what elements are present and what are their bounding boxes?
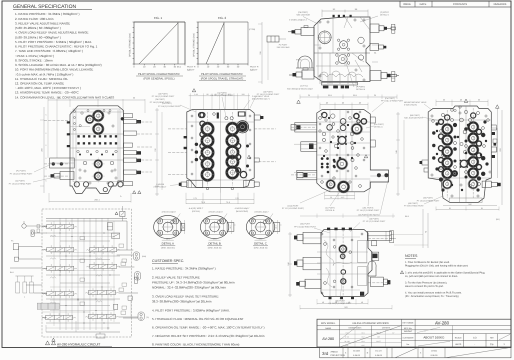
V5 left edge ports (422, 160, 428, 165)
svg-text:KEY NAME: KEY NAME (403, 322, 414, 325)
svg-text:PT 1/4 (2) D-RING PORT: PT 1/4 (2) D-RING PORT (158, 105, 181, 108)
svg-text:14. CONTAMINATION LEVEL : BE C: 14. CONTAMINATION LEVEL : BE CONTROLLED … (15, 95, 114, 99)
circuit pilot boxes (80, 237, 85, 240)
directional valve symbol (47, 292, 74, 296)
svg-text:PT 1/4 (2) D-RING PORT: PT 1/4 (2) D-RING PORT (357, 209, 380, 212)
V3 top small ports (225, 117, 228, 120)
V2 bottom dimension (49, 201, 131, 203)
svg-text:74: 74 (425, 231, 428, 233)
svg-text:Plugging the (Ob) (A-10d), and: Plugging the (Ob) (A-10d), and having wI… (405, 265, 469, 268)
svg-text:49: 49 (361, 301, 363, 304)
svg-text:REMARKS: REMARKS (494, 3, 507, 6)
V3 interior extra bolt holes (191, 115, 193, 117)
V5 interior confetti circles (441, 113, 444, 116)
V2 left small tabs (67, 121, 70, 123)
svg-text:35: 35 (308, 94, 310, 97)
circuit actuator symbol right 1 (133, 252, 139, 260)
svg-text:PT 3/8 D-RING PORT: PT 3/8 D-RING PORT (404, 205, 424, 208)
svg-text:3-M20 (TAGS): 3-M20 (TAGS) (404, 104, 417, 107)
svg-text:34.5: 34.5 (275, 225, 278, 228)
svg-text:10. PORT Rbt (R6SM)/Rbt (SMb): 10. PORT Rbt (R6SM)/Rbt (SMb) LOCK VALVE… (15, 68, 93, 72)
V2 dimension extension lines above (47, 96, 49, 158)
svg-text:NOTES: NOTES (405, 254, 418, 258)
V6 right arm centerlines (368, 238, 396, 240)
svg-text:PT 1/2 (LO-RING PORT): PT 1/2 (LO-RING PORT) (282, 207, 304, 210)
svg-text:(2b PORT): (2b PORT) (263, 91, 273, 94)
svg-text:DATE: DATE (420, 3, 427, 6)
svg-text:(MOUNTING dp17 ): (MOUNTING dp17 ) (252, 98, 270, 101)
valve front view V3 body outline (187, 110, 254, 188)
V2 ring circle crosshairs (92, 116, 105, 118)
svg-text:1.43: 1.43 (194, 93, 198, 96)
svg-text:9. SPOOL LEAKAGE : 80 cc/min M: 9. SPOOL LEAKAGE : 80 cc/min MAX. at 14.… (15, 63, 102, 67)
svg-text:ABOUT 160KG: ABOUT 160KG (423, 336, 445, 340)
V4 left relief valve cylinders (295, 123, 317, 133)
circuit actuator symbol right 3 (138, 312, 144, 320)
V4 warning triangle (297, 100, 301, 103)
svg-text:232: 232 (154, 148, 157, 151)
svg-text:PILOT P.: PILOT P. (250, 66, 259, 69)
V3 dimension chain below (186, 199, 254, 201)
V5 bottom dim lines (436, 209, 499, 211)
valve left side view V2 body outline (70, 106, 124, 194)
svg-text:(PT3/8): (PT3/8) (249, 28, 256, 31)
V1 left pilot fitting lower (302, 70, 314, 79)
svg-text:PRESSURE UP : 34.3~34.8MPa(350: PRESSURE UP : 34.3~34.8MPa(350~355Kgf/cm… (152, 281, 235, 285)
svg-text:NORMAL : 32.4~32.8MPa(3: NORMAL : 32.4~32.8MPa(330~335Kgf/cm² )at… (152, 286, 226, 290)
circuit actuator symbol right 2 (134, 272, 140, 280)
svg-text:34.5: 34.5 (229, 225, 232, 228)
svg-text:(Bkt): (Bkt) (142, 255, 146, 258)
svg-text:(FOR SPOOL TRAVEL STRAIGHT): (FOR SPOOL TRAVEL STRAIGHT) (201, 78, 244, 81)
svg-text:3rd: 3rd (322, 351, 329, 356)
V1 vertical dim line far left (261, 22, 263, 84)
svg-text:5. PILOT PORT PRESSURE : 6.9MP: 5. PILOT PORT PRESSURE : 6.9MPa ( 50kgf/… (15, 40, 92, 44)
directional valve symbol (90, 248, 117, 252)
V3 bottom right foot fitting (244, 181, 255, 188)
notes warning marker (400, 271, 403, 274)
title block diagonal slashes (418, 341, 450, 346)
svg-text:4-M10X1.5dp17: 4-M10X1.5dp17 (235, 207, 251, 210)
V4 V5 gap dimension verticals (397, 112, 399, 196)
svg-text:5: 5 (46, 168, 47, 171)
svg-text:7. TANK LINE PRESSURE : 0.98MP: 7. TANK LINE PRESSURE : 0.98MPa ( 10kgf/… (15, 49, 83, 53)
V3 bottom center hole (206, 187, 209, 190)
V2 block bolt rows (77, 135, 79, 137)
svg-text:(2a PORT): (2a PORT) (15, 180, 25, 183)
valve rear view V5 body outline (428, 106, 491, 203)
circuit accumulator cylinders left bottom (16, 282, 20, 293)
V2 right side port bosses (124, 114, 133, 118)
svg-text:6. OPERATION OIL TEMP. RANGE: 6. OPERATION OIL TEMP. RANGE : -20~+90°C… (152, 326, 265, 330)
svg-text:43: 43 (221, 93, 223, 96)
svg-text:MCV MODEL: MCV MODEL (321, 322, 336, 325)
svg-text:50.4: 50.4 (166, 237, 170, 240)
svg-text:WEIGHT: WEIGHT (404, 330, 413, 333)
svg-text:(3A PORT): (3A PORT) (423, 197, 433, 200)
svg-text:249: 249 (395, 150, 398, 153)
V3 left edge tabs (184, 136, 187, 138)
V1 left pilot fitting upper (301, 28, 314, 36)
svg-text:4-M10X1.5dp17: 4-M10X1.5dp17 (162, 211, 177, 214)
svg-text:5: 5 (46, 132, 47, 135)
V6 right lower fitting (370, 277, 383, 286)
V1 dimension lines above (322, 10, 368, 12)
svg-text:ECO/M: ECO/M (353, 350, 360, 353)
V1 dimension chain below (300, 96, 397, 98)
V4 left cylinders inner lines (294, 124, 317, 126)
svg-text:PILOT-SPOOL CHARACTERISTIC: PILOT-SPOOL CHARACTERISTIC (138, 73, 180, 76)
circuit filter component (107, 223, 112, 230)
circuit travel straight valve block (37, 303, 59, 309)
svg-text:o: o (24, 297, 25, 299)
circuit extra connector lines (42, 226, 47, 228)
svg-text:263: 263 (344, 306, 347, 309)
V4 center ring port (336, 158, 348, 170)
title block vertical lines (339, 319, 341, 347)
V1 main bore circle (319, 31, 332, 44)
circuit check valve component (112, 233, 120, 238)
revision table (400, 1, 511, 7)
circuit extra junction dots 2 (71, 236, 72, 237)
svg-text:5: 5 (46, 114, 47, 117)
V6 center ported circles (338, 245, 347, 254)
V1 port circle with bolt holes lower detail B (338, 55, 347, 64)
svg-text:90: 90 (207, 93, 209, 96)
svg-text:3. RELIEF VALVE ADJUSTABLE RAN: 3. RELIEF VALVE ADJUSTABLE RANGE (15, 21, 70, 25)
V6 dimension chain between V4 (300, 215, 395, 217)
svg-text:A-A(10) 160P-T: A-A(10) 160P-T (189, 207, 204, 210)
svg-text:(SAE J518 4t): (SAE J518 4t) (208, 247, 222, 250)
V1 external connector block (267, 36, 279, 42)
V1 small gauge circle right (358, 37, 364, 43)
svg-text:49: 49 (335, 301, 337, 304)
V5 right cluster ports (467, 121, 479, 133)
svg-text:8. SPOOL STROKE : 10mm: 8. SPOOL STROKE : 10mm (15, 58, 53, 62)
circuit bottom elements (52, 338, 55, 341)
svg-text:8.06.09: 8.06.09 (353, 354, 361, 357)
V1 left bail-shaped fitting (298, 56, 312, 68)
circuit connecting lines left (34, 232, 47, 234)
svg-text:(DETAIL): (DETAIL) (192, 210, 201, 213)
svg-text:5. HYDRAULIC FLUID : MINERAL O: 5. HYDRAULIC FLUID : MINERAL OIL ISO VG … (152, 317, 244, 321)
svg-text:8.06.09: 8.06.09 (431, 354, 439, 357)
svg-text:PILOT-SPOOL CHARACTERISTIC: PILOT-SPOOL CHARACTERISTIC (201, 73, 243, 76)
svg-text:260.1: 260.1 (94, 199, 100, 202)
V6 right upper arm block (367, 231, 391, 240)
svg-text:PF 1/2(1)O-RING PORT: PF 1/2(1)O-RING PORT (294, 225, 316, 228)
svg-text:DETAIL B: DETAIL B (356, 88, 366, 91)
V5 right mid ledge (491, 128, 497, 152)
svg-text:AV-280 HYDRAULIC CIRCUIT: AV-280 HYDRAULIC CIRCUIT (57, 342, 100, 346)
V5 left cluster ports (441, 123, 453, 135)
detail flange A (154, 215, 182, 238)
V1 bottom edge mounting tabs (323, 86, 329, 89)
V1 top edge mounting tabs (333, 15, 335, 17)
svg-text:SPOOL STROKE (mm): SPOOL STROKE (mm) (129, 33, 132, 57)
V3 left column main ports A1-A5 (200, 122, 214, 136)
svg-text:6. PILOT PRESSURE CHARACTERIS: 6. PILOT PRESSURE CHARACTERISTIC : REFER… (15, 45, 98, 49)
title block horizontal lines (317, 325, 511, 327)
svg-text:CONTENTS: CONTENTS (453, 3, 468, 6)
V2 V3 gap vertical dimension line (156, 108, 158, 196)
V1 right cartridge valve lower (370, 71, 381, 81)
svg-text:4. OVER LOAD RELIEF VALVE ADJU: 4. OVER LOAD RELIEF VALVE ADJUSTABLE RAN… (15, 31, 89, 35)
V3 internal division lines (220, 110, 222, 193)
svg-text:UNLESS OTHERWISE SPECIFIED: UNLESS OTHERWISE SPECIFIED (352, 322, 389, 325)
svg-text:PT 1/4 (2) D-RING PORT: PT 1/4 (2) D-RING PORT (9, 182, 32, 185)
V2 centerlines extending (44, 119, 70, 121)
svg-text:91: 91 (449, 207, 451, 210)
V6 top tabs (327, 228, 330, 231)
V1 lower spool bonnet arcs (320, 71, 356, 84)
svg-text:AV-280: AV-280 (322, 337, 334, 341)
svg-text:DETAIL A: DETAIL A (162, 242, 174, 246)
V5 right edge black marks (492, 132, 495, 135)
svg-text:34.5: 34.5 (182, 225, 185, 228)
svg-text:(2) P.T,O: (2) P.T,O (300, 85, 308, 88)
directional valve symbol (47, 248, 74, 252)
svg-text:OTHERS: OTHERS (382, 327, 391, 330)
svg-text:DETAIL C: DETAIL C (380, 14, 390, 17)
circuit extra horizontal connectors (50, 236, 115, 238)
detail flange B (200, 215, 228, 238)
V4 bottom dark ports (326, 179, 336, 189)
circuit right small boxes (134, 277, 137, 283)
V5 right edge small ports (491, 125, 496, 130)
V5 dimension lines above (436, 101, 488, 103)
svg-text:SAE J518 6#8 PORT: SAE J518 6#8 PORT (404, 117, 424, 120)
V6 dimension chain below (317, 303, 368, 305)
svg-text:1. RATED PRESSURE : 34.3MPa (3: 1. RATED PRESSURE : 34.3MPa (350kgf/cm² … (152, 267, 216, 271)
V2 center spool circles (94, 159, 103, 168)
svg-text:PT 1/4 (2) D-RING PORT: PT 1/4 (2) D-RING PORT (10, 172, 33, 175)
svg-text:50: 50 (330, 196, 332, 199)
circuit small spring-check symbols (50, 235, 56, 237)
V6 interior casting squiggles (324, 240, 334, 266)
directional valve symbol (47, 266, 74, 270)
svg-text:7. NEGATIVE RELIEF SET PRESSUR: 7. NEGATIVE RELIEF SET PRESSURE : 2.94~3… (152, 334, 265, 338)
svg-text:PT 1/4 (2) D-RING PORT: PT 1/4 (2) D-RING PORT (417, 199, 440, 202)
svg-text:4-M10X1.5dp17: 4-M10X1.5dp17 (254, 211, 269, 214)
valve bottom view V6 body outline (321, 230, 372, 297)
V4 top area circles (322, 112, 327, 117)
V6 interior extra details (321, 233, 323, 235)
svg-text:DIMENSIONS: DIMENSIONS (349, 327, 362, 330)
svg-text:PT 1/4 (2) D-RING PORT: PT 1/4 (2) D-RING PORT (257, 93, 280, 96)
V6 internal lines (317, 251, 368, 253)
svg-text:3. OVER LOAD RELIEF VALVE SET: 3. OVER LOAD RELIEF VALVE SET PRESSURE: (152, 295, 219, 299)
svg-text:: 0.5 cc/min MAX. at (4.7MPa (: : 0.5 cc/min MAX. at (4.7MPa ( 150kgf/cm… (15, 72, 73, 76)
svg-text:158: 158 (287, 262, 290, 265)
valve right side view V4 body outline (317, 110, 389, 192)
V3 centerlines extending (168, 128, 187, 130)
svg-text:50.4: 50.4 (213, 237, 217, 240)
svg-text:SAE J518 6#8: SAE J518 6#8 (277, 46, 291, 49)
circuit junction dots (59, 232, 60, 233)
svg-text:91: 91 (481, 207, 483, 210)
svg-text:50.4: 50.4 (259, 237, 263, 240)
svg-text:CHAN: CHAN (431, 350, 437, 353)
V2 left dimension vertical (43, 107, 45, 193)
svg-text:90.5: 90.5 (228, 93, 232, 96)
V2 internal lines (70, 133, 124, 135)
svg-text:8.06.09: 8.06.09 (375, 354, 383, 357)
V4 right upper boss (370, 117, 375, 123)
svg-text:(2b PORT): (2b PORT) (369, 217, 379, 220)
V5 right dim vertical (497, 108, 499, 178)
V1 port circle with bolt holes upper (340, 41, 348, 49)
title block bottom extension row (320, 347, 511, 357)
V3 right side gauge ports (254, 115, 260, 120)
svg-text:206: 206 (259, 51, 262, 54)
circuit right column extra small boxes (119, 244, 124, 247)
V6 interior side panels (358, 241, 367, 263)
detail flange C (246, 215, 274, 238)
valve top view V1 body outline (314, 17, 370, 82)
V4 right lower arm ports (377, 173, 381, 177)
svg-text:96.5: 96.5 (328, 94, 332, 97)
svg-text:(2b PORT): (2b PORT) (155, 98, 165, 101)
svg-text:2. RATED FLOW : 280 L/min: 2. RATED FLOW : 280 L/min (15, 17, 54, 21)
svg-text:(5.88~35.28kPa ( 60~360kgf/cm²: (5.88~35.28kPa ( 60~360kgf/cm² ) (15, 26, 61, 30)
V2 lower-half extra circles (79, 169, 81, 171)
V6 bottom tabs (329, 297, 332, 299)
svg-text:(SAE J518 4t): (SAE J518 4t) (161, 247, 175, 250)
V5 interior extra bolt holes (431, 115, 433, 117)
svg-text:(3A) PORT: (3A) PORT (300, 223, 311, 226)
circuit left port boxes (13, 244, 18, 250)
svg-text:5: 5 (46, 144, 47, 147)
svg-text:SAE 3000psi 4-M10X1.5dp17: SAE 3000psi 4-M10X1.5dp17 (287, 88, 314, 91)
svg-text:12. OPERATION OIL TEMP. RANGE: 12. OPERATION OIL TEMP. RANGE (15, 82, 64, 86)
V6 left fittings (303, 232, 321, 244)
hydraulic circuit internal rails (59, 218, 61, 330)
V5 bottom tray (449, 198, 482, 203)
svg-text:AV-280: AV-280 (435, 320, 450, 325)
V1 right cartridge valve upper (370, 24, 379, 33)
V4 interior extra details (321, 113, 323, 115)
svg-text:KEY No.: KEY No. (404, 327, 412, 330)
circuit connecting lines right (117, 249, 134, 251)
V3 dimension chain above (189, 95, 250, 97)
V2 top ported circles (85, 115, 94, 124)
svg-text:11. HYDRAULIC FLUID : MINERAL: 11. HYDRAULIC FLUID : MINERAL OIL (15, 77, 68, 81)
svg-text:kgf/cm²: kgf/cm² (250, 69, 257, 72)
title block outer (317, 319, 511, 347)
V1 bottom mounting rail (322, 82, 358, 85)
circuit bottom right actuator lines (123, 317, 138, 319)
svg-text:EC.CH: EC.CH (375, 350, 382, 353)
svg-text:(MOUNTING): (MOUNTING) (236, 210, 249, 213)
V6 left side dim vertical (289, 232, 291, 297)
V4 bottom dimension cells (325, 194, 355, 196)
svg-text:4-M10X1.25dp17 2: 4-M10X1.25dp17 2 (289, 19, 308, 22)
V3 ring circle crosshairs (201, 128, 215, 130)
svg-text:(SAE J518 4t): (SAE J518 4t) (254, 247, 268, 250)
V4 small port dots grid (321, 157, 324, 160)
svg-text:(Pz PORT): (Pz PORT) (16, 170, 26, 173)
V3 left foot black cap and label (179, 183, 182, 186)
V2 left lower fitting (60, 172, 74, 180)
svg-text:38.3~38.8MPa (380~365Kgf/cm² ): 38.3~38.8MPa (380~365Kgf/cm² )at 20L/min (152, 300, 212, 304)
directional valve symbol (46, 315, 73, 319)
V2 left bracket with ports (50, 158, 75, 168)
svg-text:(FOR GENERAL SPOOL): (FOR GENERAL SPOOL) (144, 78, 175, 81)
V1 mid-right fitting (370, 44, 379, 51)
V4 interior confetti circles (319, 117, 322, 120)
V3 top black keys (217, 113, 219, 119)
svg-text:(Ps : All actuators except tra: (Ps : All actuators except travel, Fo : … (405, 295, 459, 298)
directional valve symbol (90, 264, 117, 268)
circuit inlet small boxes column (37, 225, 40, 228)
svg-text:CUSTOMER: CUSTOMER (403, 336, 414, 339)
svg-text:1-M10X8: 1-M10X8 (156, 183, 165, 186)
circuit top left pump circle (22, 224, 26, 228)
V1 right rod end connector lower (392, 72, 395, 82)
svg-text:FIG. 2: FIG. 2 (218, 16, 227, 20)
V5 bottom right fitting (482, 181, 491, 187)
V6 right arm end connector (390, 231, 394, 243)
svg-text:4-M10X1.5dp17: 4-M10X1.5dp17 (208, 211, 223, 214)
svg-text:(SMPS) BOLT: (SMPS) BOLT (154, 186, 167, 189)
V6 right mid boss (372, 252, 379, 260)
svg-text:PF 1/2(L) D-RING PORT: PF 1/2(L) D-RING PORT (381, 100, 404, 103)
svg-text:96.5: 96.5 (353, 94, 357, 97)
V3 right column main ports B1-B5 (225, 122, 239, 136)
V3 dark plug port (237, 122, 247, 132)
circuit caption (45, 341, 49, 345)
V3 warning triangle (192, 89, 195, 92)
svg-text:5: 5 (46, 179, 47, 182)
svg-text:: PEAK 1.47kPa ( 15kgf/cm² ): : PEAK 1.47kPa ( 15kgf/cm² ) (15, 54, 54, 58)
svg-text:(Tr): (Tr) (146, 316, 149, 319)
V4 dimension lines above (320, 104, 368, 106)
V2 bottom flange circles (74, 182, 79, 187)
svg-text:PT 1/4 (2)-RING PORT: PT 1/4 (2)-RING PORT (150, 101, 171, 104)
title block tolerance grid (371, 326, 373, 348)
V1 internal section lines (314, 52, 370, 54)
svg-text:(2b PORT): (2b PORT) (158, 93, 168, 96)
svg-text:DETAIL B: DETAIL B (326, 209, 335, 212)
svg-text:SPOOL STROKE (mm): SPOOL STROKE (mm) (193, 33, 196, 57)
hydraulic circuit boundary (42, 209, 132, 337)
svg-text:DETAIL A: DETAIL A (374, 126, 383, 129)
svg-text:(5.88~39.19kPa ( 60~400kgf/cm²: (5.88~39.19kPa ( 60~400kgf/cm² ) (15, 35, 61, 39)
svg-text:ANGLE: ANGLE (331, 351, 339, 354)
circuit relief valve top right (120, 211, 125, 216)
V5 additional dark ports (442, 179, 453, 190)
V2 extra interior small circles (74, 111, 76, 113)
V1 right rod end connector upper (392, 24, 395, 33)
svg-text:—: — (424, 331, 426, 333)
svg-text:GENERAL SPECIFICATION: GENERAL SPECIFICATION (13, 4, 76, 10)
svg-text:35: 35 (374, 94, 376, 97)
svg-text:44.5: 44.5 (341, 196, 345, 199)
directional valve symbol (89, 314, 116, 318)
svg-text:13. ATMOSPHERE TEMP. RANGE : -: 13. ATMOSPHERE TEMP. RANGE : -20~+80°C (15, 91, 80, 95)
V6 right dim verticals (422, 209, 424, 248)
V5 interior centerlines (446, 110, 448, 198)
V5 center small rings and extra dots (460, 118, 464, 122)
svg-text:5: 5 (46, 157, 47, 160)
V4 mid bolt cluster (338, 136, 346, 144)
V3 left column small ports (200, 113, 205, 118)
svg-text:Have to connect Po port to To-: Have to connect Po port to To-port. (405, 285, 444, 288)
svg-text:103: 103 (242, 93, 245, 96)
svg-text:so, pAb and pBb port does not: so, pAb and pBb port does not connect to… (405, 275, 458, 278)
svg-text:UNITS: UNITS (455, 343, 462, 346)
